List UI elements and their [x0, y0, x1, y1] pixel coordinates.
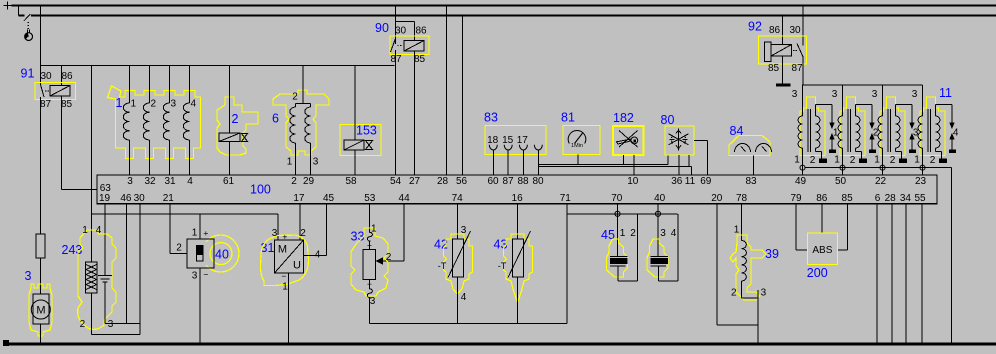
injector pins 1 2 labels [620, 228, 637, 239]
wire coil 39 pin2 [742, 281, 758, 298]
svg-text:58: 58 [345, 176, 357, 187]
svg-text:4: 4 [187, 176, 193, 187]
sensor 43 label [494, 238, 508, 252]
ABS module box [808, 233, 838, 265]
svg-text:39: 39 [765, 247, 779, 261]
wire module 31 pin1 to ground bus [288, 273, 290, 343]
svg-text:71: 71 [560, 193, 572, 204]
relay 92 outline [759, 36, 807, 64]
sensor 43 label T [498, 261, 507, 271]
coil pack 1 outline [108, 86, 201, 159]
module 31 outline [260, 235, 308, 286]
svg-text:-T: -T [438, 261, 447, 271]
potentiometer 33 wiper arrow [377, 258, 383, 264]
svg-text:−: − [367, 279, 372, 289]
relay 92 resistor [765, 42, 772, 62]
gauges 84 outline [729, 136, 770, 156]
coil 1 spark number [833, 128, 839, 139]
svg-text:21: 21 [163, 193, 175, 204]
wire sensor ground line (y323.3) [369, 322, 567, 324]
motor 3 body [31, 294, 50, 324]
svg-text:30: 30 [789, 25, 801, 36]
coil 3 secondary winding [896, 105, 902, 159]
svg-text:2: 2 [232, 112, 239, 126]
svg-text:85: 85 [842, 193, 854, 204]
wire pin6 to ground bus [876, 204, 878, 343]
coil 2 spark number [873, 128, 879, 139]
svg-text:88: 88 [517, 176, 529, 187]
wire pin79 to ABS [796, 204, 808, 250]
svg-text:27: 27 [409, 176, 421, 187]
coil 1 bottom pin labels [794, 155, 816, 166]
motor 3 outline [29, 284, 52, 336]
svg-text:17: 17 [517, 135, 529, 146]
wire pin74 to sensor 42 [457, 204, 459, 239]
svg-text:85: 85 [61, 99, 73, 110]
wire relay91 pin85 out to pin63 [62, 96, 98, 190]
wire relay92 pin30 feed [802, 6, 804, 46]
svg-text:2: 2 [300, 228, 306, 239]
svg-text:83: 83 [745, 176, 757, 187]
svg-text:+: + [282, 232, 287, 242]
svg-text:29: 29 [303, 176, 315, 187]
svg-text:22: 22 [875, 176, 887, 187]
svg-text:243: 243 [62, 243, 83, 257]
svg-text:1: 1 [282, 282, 288, 293]
svg-text:53: 53 [364, 193, 376, 204]
wire sensor 43 to sensor ground line [517, 277, 519, 323]
wire connector 83 pin [537, 150, 539, 175]
svg-text:34: 34 [900, 193, 912, 204]
injector 12 outline [607, 239, 628, 277]
wire relay92 pin86 feed [782, 16, 784, 45]
valve 153 solenoid [344, 140, 364, 150]
svg-text:182: 182 [613, 111, 634, 125]
svg-text:4: 4 [96, 225, 102, 236]
wire injector 3 return [659, 214, 679, 281]
wire coil 4 feed [922, 85, 924, 103]
wire pin44 to potentiometer wiper [382, 204, 404, 261]
gauges 84 label [730, 124, 744, 138]
svg-text:1: 1 [371, 224, 377, 235]
valve 2 label [232, 112, 239, 126]
connector 83 socket [519, 145, 527, 150]
wire resistor down [91, 293, 93, 335]
svg-text:56: 56 [456, 176, 468, 187]
potentiometer 33 label [351, 230, 365, 244]
module 31 label [261, 241, 275, 255]
wire module 31 pin4 [304, 254, 327, 256]
relay 92 contact [793, 44, 803, 58]
suppressor 243 label [62, 243, 83, 257]
wire pin17 to module 31 [299, 204, 301, 240]
svg-text:81: 81 [561, 111, 575, 125]
speedometer 81 gauge [568, 130, 586, 148]
connector 40 yellow rings [206, 235, 239, 272]
wire valve 2 to pin61 [229, 142, 231, 176]
AC 80 label [661, 113, 675, 127]
svg-text:3: 3 [272, 228, 278, 239]
svg-text:23: 23 [915, 176, 927, 187]
svg-text:91: 91 [21, 67, 35, 81]
wire pin20 elbow [717, 204, 758, 325]
coil 1 core [808, 109, 811, 152]
connector 83 socket [504, 145, 512, 150]
svg-text:ABS: ABS [812, 245, 832, 256]
wire valve 153 to pin58 [354, 150, 356, 175]
relay 91 coil [50, 86, 70, 97]
coil 4 secondary winding [936, 105, 942, 159]
wire relay90 pin87 to pin54 [395, 50, 397, 175]
svg-text:87: 87 [40, 99, 52, 110]
svg-text:31: 31 [164, 176, 176, 187]
svg-text:46: 46 [120, 193, 132, 204]
svg-text:28: 28 [885, 193, 897, 204]
ECU 100 top pin labels [127, 176, 926, 187]
wire relay92 pin87 to coil feed line [802, 58, 804, 86]
svg-text:70: 70 [611, 193, 623, 204]
wire relay92 pin85 to ground [782, 56, 784, 84]
svg-text:3: 3 [171, 99, 177, 110]
relay 91 label [21, 67, 35, 81]
svg-text:87: 87 [502, 176, 514, 187]
coil 2 primary winding [838, 103, 843, 175]
wire valve 153 feed [354, 66, 356, 141]
coil pack 1 label [116, 96, 123, 110]
wire pin21 to connector 40 [170, 204, 187, 254]
wire immobilizer 182 left pin [623, 155, 625, 164]
svg-text:3: 3 [660, 228, 666, 239]
svg-text:−: − [281, 271, 286, 281]
sensor 42 body [448, 231, 471, 278]
coil 3 spark gap [896, 105, 917, 154]
svg-text:28: 28 [437, 176, 449, 187]
wire coil link line (y167.5) [805, 167, 952, 169]
svg-text:2: 2 [292, 92, 298, 103]
coil 3 core [888, 109, 891, 152]
svg-text:2: 2 [386, 252, 392, 263]
valve 153 outline [340, 125, 381, 156]
svg-text:3: 3 [108, 319, 114, 330]
coil 39 bottom labels [731, 288, 767, 299]
svg-text:2: 2 [291, 176, 297, 187]
injector 1 body [610, 257, 628, 267]
coil 2 spark gap [856, 105, 877, 154]
sensor 42 labels [438, 225, 467, 303]
coil 4 core [928, 109, 931, 152]
immobilizer 182 outline [613, 126, 644, 155]
suppressor 243 pin labels bottom [80, 319, 114, 330]
svg-text:3: 3 [832, 89, 838, 100]
wire pin30 down [139, 204, 141, 335]
svg-text:1: 1 [287, 157, 293, 168]
svg-text:10: 10 [627, 176, 639, 187]
wire pin85 to ABS [838, 204, 848, 250]
coil feed line (y85) [803, 84, 923, 86]
svg-text:100: 100 [250, 182, 271, 196]
gauges 84 dials [735, 144, 772, 153]
svg-text:50: 50 [835, 176, 847, 187]
wire relay90 pin85 to pin27 [414, 51, 416, 175]
svg-text:4: 4 [953, 128, 959, 139]
ECU 100 pin 63 label [100, 183, 112, 194]
wire pin16 to sensor 43 [517, 204, 519, 239]
wire signal line upper (81/182 to pin80) [538, 155, 668, 164]
coil 39 winding [742, 241, 747, 282]
wire supply rail +30 (y5) [12, 5, 996, 7]
ECU 100 bottom pin labels [99, 193, 926, 204]
svg-text:83: 83 [484, 111, 498, 125]
wire motor to ground bus [40, 324, 42, 343]
wire AC 80 right pin to pin69 [694, 141, 708, 176]
svg-text:2: 2 [810, 155, 816, 166]
wire ignition rail +15 (y15) left part [19, 15, 25, 17]
svg-text:3: 3 [461, 225, 467, 236]
wire pin70 to injector [617, 204, 619, 256]
svg-text:1: 1 [620, 228, 626, 239]
svg-text:44: 44 [399, 193, 411, 204]
svg-text:86: 86 [816, 193, 828, 204]
AC 80 snowflake [669, 129, 689, 151]
ignition coil 11 unit 3 outline [880, 97, 905, 156]
svg-text:85: 85 [768, 63, 780, 74]
coil 3 spark number [913, 128, 919, 139]
relay 92 coil [771, 45, 792, 57]
AC 80 outline [665, 126, 694, 155]
svg-text:18: 18 [487, 135, 499, 146]
svg-text:85: 85 [414, 54, 426, 65]
ground symbol under relay 92 [776, 84, 791, 87]
wire 243 bottom links [92, 324, 141, 335]
wire AC 80 to pin36 [678, 155, 680, 175]
fuse [36, 234, 45, 258]
svg-text:30: 30 [134, 193, 146, 204]
svg-text:20: 20 [711, 193, 723, 204]
coil 39 outline [730, 235, 766, 300]
actuator 6 pin2 label [292, 92, 298, 103]
wire supply rail after relay (y65) [41, 65, 395, 67]
wire coil link to ground bus [951, 168, 953, 343]
svg-text:40: 40 [215, 247, 229, 261]
coil 39 pin1 label [734, 225, 740, 236]
wire pin34 to ground bus [905, 204, 907, 343]
wire capacitor down [104, 283, 106, 324]
coil 3 top pin label [872, 89, 878, 100]
svg-text:45: 45 [323, 193, 335, 204]
svg-text:30: 30 [40, 71, 52, 82]
speedometer 81 label [561, 111, 575, 125]
svg-text:55: 55 [914, 193, 926, 204]
injector pins 3 4 labels [660, 228, 677, 239]
svg-text:6: 6 [272, 112, 279, 126]
svg-text:19: 19 [99, 193, 111, 204]
potentiometer 33 bottom spring [367, 280, 372, 324]
wire gauges 84 to pin83 [753, 156, 755, 176]
actuator 6 winding right [305, 104, 311, 176]
wire connector 83 pin [522, 150, 524, 175]
wire lower supply line segment A (y213.8) [92, 214, 279, 240]
potentiometer 33 labels [367, 224, 392, 308]
coil 4 connector circle [920, 165, 925, 170]
wire relay90 pin30 feed [395, 6, 397, 45]
coil 3 connector circle [880, 165, 885, 170]
connector 83 socket numbers [487, 135, 528, 146]
coil 2 secondary ground pad [859, 159, 867, 164]
connector 40 box [187, 239, 214, 268]
svg-text:-T: -T [498, 261, 507, 271]
wire pin40 to injector [657, 204, 659, 256]
relay 91 pin labels [40, 71, 73, 110]
wire lower supply line segment B (y213.8) [567, 213, 678, 215]
coil 1 secondary ground pad [819, 159, 827, 164]
ignition switch contact [24, 14, 31, 21]
svg-text:3: 3 [872, 89, 878, 100]
wire signal line lower (to pin11) [538, 167, 691, 175]
svg-text:4: 4 [191, 99, 197, 110]
relay 90 pin labels [390, 26, 427, 66]
svg-text:2: 2 [80, 319, 86, 330]
motor 3 label [25, 269, 32, 283]
coil 2 core [848, 109, 851, 152]
svg-text:15: 15 [502, 135, 514, 146]
coil 1 winding 3 [163, 66, 176, 176]
ground bus [3, 343, 996, 346]
svg-text:2: 2 [731, 288, 737, 299]
actuator 6 winding left [290, 104, 296, 176]
wire ignition rail +15 (y15) right part [31, 15, 996, 17]
wire sensor 42 to sensor ground line [457, 277, 459, 323]
ABS 200 label [807, 266, 828, 280]
injector 3 body [651, 257, 669, 267]
svg-text:86: 86 [769, 25, 781, 36]
svg-text:1: 1 [131, 99, 137, 110]
connector 40 label [215, 247, 229, 261]
relay 91 outline [35, 83, 76, 100]
svg-text:2: 2 [176, 243, 182, 254]
wire relay91 pin30 feed [40, 6, 42, 85]
ignition coil 11 unit 2 outline [840, 97, 865, 156]
ground terminal block [3, 340, 9, 346]
svg-text:61: 61 [223, 176, 235, 187]
wire speedometer 81 out [577, 155, 579, 165]
wire pin46 down [125, 204, 127, 324]
svg-text:87: 87 [791, 63, 803, 74]
wire relay91 pin87 out [40, 97, 42, 234]
valve 153 valve symbol [366, 141, 373, 150]
svg-text:33: 33 [351, 230, 365, 244]
wire valve 2 feed [229, 66, 231, 134]
connector 40 plug symbol [197, 246, 204, 262]
svg-text:11: 11 [685, 176, 696, 187]
wire relay91 pin86 feed [61, 66, 63, 86]
svg-text:1: 1 [914, 155, 920, 166]
coil 2 top pin label [832, 89, 838, 100]
svg-text:3: 3 [912, 89, 918, 100]
svg-text:−: − [203, 270, 208, 280]
svg-text:36: 36 [671, 176, 683, 187]
wire pin28 to ground bus [891, 204, 893, 343]
coil 3 secondary ground pad [899, 159, 907, 164]
svg-text:54: 54 [390, 176, 402, 187]
wire relay90 pin86 feed [396, 22, 415, 41]
coil 4 primary winding [918, 103, 923, 175]
svg-text:1: 1 [82, 225, 88, 236]
connector 83 outline [485, 126, 546, 155]
relay 90 coil [404, 41, 424, 52]
svg-text:11: 11 [939, 86, 952, 100]
coil 1 spark gap [816, 105, 837, 154]
svg-text:1Min: 1Min [571, 143, 583, 149]
relay 90 contact [391, 39, 402, 53]
ECU 100 box [97, 175, 937, 204]
wire pin45 to module 31 pin4 [304, 204, 327, 256]
wire rail30 to pin28 [446, 6, 448, 176]
coil 1 winding 2 [143, 66, 156, 176]
immobilizer 182 label [613, 111, 634, 125]
relay 90 outline [390, 36, 429, 55]
svg-text:1: 1 [734, 225, 740, 236]
svg-text:1: 1 [834, 155, 840, 166]
wire connector 83 pin [507, 150, 509, 175]
coil 4 secondary ground pad [939, 159, 947, 164]
svg-text:2: 2 [630, 228, 636, 239]
svg-text:3: 3 [127, 176, 133, 187]
ignition coil 11 unit 1 outline [800, 97, 825, 156]
valve 2 valve symbol [242, 134, 248, 142]
potentiometer 33 top spring [367, 232, 372, 249]
coil 1 top pin label [792, 89, 798, 100]
relay 90 label [375, 21, 389, 35]
svg-text:4: 4 [461, 292, 467, 303]
sensor 43 body [508, 231, 531, 278]
suppressor 243 resistor [86, 262, 98, 293]
junction circle pin70 [615, 211, 620, 216]
connector 83 socket [489, 145, 497, 150]
svg-text:200: 200 [807, 266, 828, 280]
ECU 100 pin 63 wire [62, 189, 98, 191]
wire connector 83 pin [492, 150, 494, 175]
wire actuator 6 feed [296, 66, 311, 104]
svg-text:3: 3 [192, 271, 198, 282]
svg-text:17: 17 [293, 193, 305, 204]
svg-text:86: 86 [415, 26, 427, 37]
svg-text:78: 78 [736, 193, 748, 204]
connector 83 label [484, 111, 498, 125]
wire pin71 down [566, 204, 568, 323]
coil 4 spark number [953, 128, 959, 139]
actuator 6 outline [273, 90, 329, 155]
svg-text:3: 3 [792, 89, 798, 100]
svg-text:1: 1 [192, 228, 198, 239]
coil 1 connector circle [800, 165, 805, 170]
coil 3 primary winding [878, 103, 883, 175]
sensor 43 outline [504, 234, 533, 302]
potentiometer 33 body [363, 250, 376, 280]
wire coil 39 pin3 to ground bus [757, 290, 759, 343]
svg-text:2: 2 [850, 155, 856, 166]
coil 4 bottom pin labels [914, 155, 936, 166]
coil 2 connector circle [840, 165, 845, 170]
suppressor 243 capacitor [98, 276, 112, 283]
coil 1 primary winding [798, 85, 803, 176]
svg-text:U: U [293, 260, 301, 272]
svg-text:+: + [203, 228, 208, 238]
actuator 6 label [272, 112, 279, 126]
connector 83 socket [534, 145, 542, 150]
sensor 42 outline [444, 234, 473, 294]
valve 2 outline [217, 97, 258, 155]
svg-text:3: 3 [370, 296, 376, 307]
